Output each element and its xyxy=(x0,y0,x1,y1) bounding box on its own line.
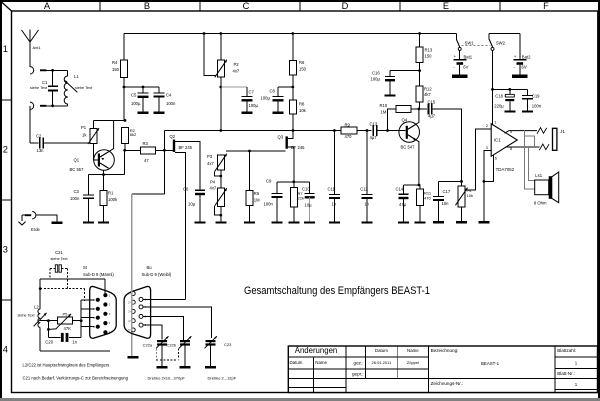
svg-text:1: 1 xyxy=(3,44,8,54)
svg-text:R13: R13 xyxy=(425,48,433,53)
label C12 xyxy=(360,186,369,206)
pin 8 label xyxy=(510,147,512,151)
node R5 top xyxy=(248,150,251,153)
wire source node xyxy=(277,181,310,183)
label R8 xyxy=(299,102,307,114)
svg-text:4: 4 xyxy=(3,344,8,354)
svg-text:Ant1: Ant1 xyxy=(33,45,41,50)
op-amp IC1 xyxy=(491,124,517,157)
ground under C12 xyxy=(362,221,373,223)
wire supply to C18 C19 xyxy=(493,88,528,91)
svg-text:C9: C9 xyxy=(266,179,272,184)
svg-text:C13: C13 xyxy=(370,121,378,126)
column separators xyxy=(100,0,500,11)
label Bat2 xyxy=(514,54,532,71)
svg-text:8 Ohm: 8 Ohm xyxy=(534,201,547,206)
capacitor C4 xyxy=(154,87,165,112)
node R4 bottom xyxy=(123,86,126,89)
wire jack to speaker upper xyxy=(525,130,535,189)
svg-text:10k: 10k xyxy=(299,108,307,113)
ground under C10 xyxy=(304,221,315,223)
wire Q2 drain xyxy=(175,141,200,190)
pin 5 label xyxy=(510,130,512,134)
svg-text:SW1: SW1 xyxy=(465,40,475,45)
svg-text:Zeichnungs-Nr.:: Zeichnungs-Nr.: xyxy=(431,381,463,386)
ground under C23 xyxy=(205,366,216,368)
label C3 xyxy=(70,189,80,201)
wire gate node down xyxy=(163,150,165,194)
wire P3 wiper to gate line xyxy=(215,171,223,177)
svg-text:470: 470 xyxy=(345,134,353,139)
wire R10 feedback xyxy=(388,109,396,131)
junction dots base node xyxy=(124,119,127,122)
resistor R6 xyxy=(289,34,296,101)
node volume top xyxy=(460,180,463,183)
node P5 wiper xyxy=(47,319,50,322)
svg-text:C19: C19 xyxy=(532,93,540,98)
ground under C16 xyxy=(385,94,396,96)
inductor L1 xyxy=(64,70,77,106)
label IC1 xyxy=(494,138,515,173)
svg-text:22k: 22k xyxy=(298,196,304,201)
note C21 xyxy=(23,376,129,381)
wire emitter node xyxy=(404,184,419,186)
capacitor C11 xyxy=(329,131,340,222)
svg-text:C6: C6 xyxy=(183,187,189,192)
power rail wire segment 2 xyxy=(489,33,520,35)
svg-text:26.01.2011: 26.01.2011 xyxy=(372,360,392,365)
svg-text:3: 3 xyxy=(486,146,488,150)
gray bus through Bu xyxy=(131,282,133,331)
svg-text:150: 150 xyxy=(112,67,120,72)
wire wiper to IC1 xyxy=(468,129,492,190)
svg-text:R8: R8 xyxy=(299,102,305,107)
node R13 bottom xyxy=(418,69,421,72)
svg-text:R5: R5 xyxy=(254,191,260,196)
capacitor C5 xyxy=(138,87,149,112)
svg-text:100µ: 100µ xyxy=(371,76,381,81)
ground under C18 xyxy=(504,110,515,112)
ganged dashed link xyxy=(156,349,178,360)
wire P4 bottom xyxy=(219,207,222,222)
svg-text:Name: Name xyxy=(407,348,419,353)
wire Q1 emitter up xyxy=(109,120,114,151)
ground under R7 xyxy=(289,221,300,223)
jack contact lower xyxy=(539,144,549,150)
svg-text:Sub-D 9 (Männl): Sub-D 9 (Männl) xyxy=(83,272,114,277)
gate line Q3 xyxy=(226,150,286,152)
svg-text:R12: R12 xyxy=(424,87,432,92)
wire P3 to P4 xyxy=(220,170,222,188)
ground under pin3 xyxy=(478,221,489,223)
svg-text:J1: J1 xyxy=(560,129,565,134)
row numbers 1-4 xyxy=(3,44,8,355)
ground under C6 xyxy=(195,221,206,223)
potentiometer P5 47K xyxy=(56,314,72,329)
label R10 xyxy=(380,103,388,115)
svg-text:Q4: Q4 xyxy=(402,117,408,122)
svg-text:1: 1 xyxy=(494,121,496,125)
svg-text:100µ: 100µ xyxy=(261,96,271,101)
svg-text:Q3: Q3 xyxy=(278,135,284,140)
label R6 xyxy=(299,60,307,72)
svg-text:+: + xyxy=(514,54,517,59)
svg-text:L1: L1 xyxy=(74,74,79,79)
svg-text:C3: C3 xyxy=(74,189,80,194)
label J1 xyxy=(560,129,565,134)
Bu pin numbers xyxy=(128,294,147,332)
wire gate node up xyxy=(163,131,165,151)
wire R10 to node xyxy=(411,108,419,110)
svg-text:Erde: Erde xyxy=(31,227,41,232)
label SW2 xyxy=(496,40,506,45)
label R7 xyxy=(298,191,304,201)
label L1 xyxy=(74,74,93,90)
svg-text:Blatt-Nr.:: Blatt-Nr.: xyxy=(557,371,575,376)
node P2 bottom xyxy=(219,86,222,89)
node antenna top xyxy=(51,69,54,72)
wire antenna to node xyxy=(46,69,67,71)
svg-text:10k: 10k xyxy=(467,193,473,198)
svg-text:R6: R6 xyxy=(299,60,305,65)
svg-text:8k2: 8k2 xyxy=(130,132,137,137)
capacitor C14 xyxy=(399,185,409,221)
svg-text:siehe Text: siehe Text xyxy=(75,86,93,90)
label C22b xyxy=(167,342,177,347)
St pin numbers xyxy=(93,295,111,334)
pin 6 label xyxy=(495,157,497,161)
resistor R9 xyxy=(341,127,357,134)
svg-text:220µ: 220µ xyxy=(494,103,504,108)
svg-text:F: F xyxy=(543,1,549,11)
capacitor C18 xyxy=(505,89,514,110)
svg-text:100n: 100n xyxy=(532,103,542,108)
svg-text:1M: 1M xyxy=(381,110,387,115)
ground under C8 xyxy=(273,112,284,114)
label C22a xyxy=(143,342,153,347)
ground under C11 xyxy=(329,221,340,223)
note Drehko 2 xyxy=(208,376,237,381)
svg-text:BF 245: BF 245 xyxy=(179,145,193,150)
svg-text:1n: 1n xyxy=(364,201,369,206)
variable capacitor C22a xyxy=(156,336,168,366)
label R13 xyxy=(425,48,433,59)
wire plug to C2 xyxy=(29,106,31,143)
ground under C19 xyxy=(522,110,533,112)
title block grid xyxy=(288,345,597,392)
svg-text:2: 2 xyxy=(486,124,488,128)
switch SW1 xyxy=(456,34,461,51)
wire Q2 source to bus xyxy=(175,152,185,299)
svg-text:L2: L2 xyxy=(34,305,39,310)
transistor Q4 BC 547 xyxy=(399,122,420,143)
label C1 xyxy=(30,80,48,90)
note Drehko 1 xyxy=(148,376,186,381)
svg-text:C8: C8 xyxy=(270,89,276,94)
svg-text:C2: C2 xyxy=(36,134,42,139)
switch SW2 xyxy=(489,34,494,51)
wire Bu pin to Q2 source xyxy=(143,298,185,300)
wire SW1 to Bat1 xyxy=(459,50,461,59)
svg-text:IC1: IC1 xyxy=(494,138,502,143)
schematic title text xyxy=(244,285,430,297)
svg-text:150: 150 xyxy=(425,54,433,59)
title block texts xyxy=(290,346,578,387)
capacitor C20 xyxy=(48,333,81,342)
wire to C7 xyxy=(221,87,247,97)
chassis ground arrow xyxy=(17,222,27,225)
power rail wire xyxy=(124,33,457,35)
svg-text:R1: R1 xyxy=(108,190,114,195)
label C4 xyxy=(166,93,176,107)
svg-text:B: B xyxy=(144,1,150,11)
svg-text:R3: R3 xyxy=(143,141,149,146)
svg-text:47µ: 47µ xyxy=(399,202,407,207)
svg-text:siehe Text: siehe Text xyxy=(30,86,48,90)
svg-text:BC 547: BC 547 xyxy=(401,144,416,149)
wire gate to Q2 xyxy=(164,149,172,151)
node Q4 emitter xyxy=(418,184,421,187)
resistor R1 xyxy=(100,175,107,222)
ground under R1 xyxy=(98,221,109,223)
wire tank left vertical xyxy=(39,279,41,309)
wire Q4 collector xyxy=(416,109,419,124)
svg-text:BEAST-1: BEAST-1 xyxy=(481,361,500,366)
inductor L2 xyxy=(34,309,47,327)
pin 2 label xyxy=(486,124,488,128)
ground under Bat1 xyxy=(452,75,468,78)
wire C13 to Q4 base xyxy=(377,130,406,132)
node R6 bottom xyxy=(291,86,294,89)
antenna plug connector lower xyxy=(30,102,46,109)
svg-text:6V: 6V xyxy=(463,64,468,69)
earth connector Erde xyxy=(22,212,36,222)
svg-text:Bu: Bu xyxy=(147,265,153,270)
svg-text:siehe Text: siehe Text xyxy=(17,314,35,318)
rail junction dots xyxy=(203,32,421,35)
capacitor C8 xyxy=(273,97,284,112)
capacitor C12 xyxy=(362,129,373,221)
svg-text:C14: C14 xyxy=(396,186,404,191)
wire to C5 C4 xyxy=(124,86,159,89)
node supply xyxy=(491,88,494,91)
transistor Q3 BF 245 xyxy=(286,136,288,148)
svg-text:C: C xyxy=(243,1,250,11)
wire to C8 xyxy=(278,87,293,97)
svg-text:C5: C5 xyxy=(131,93,137,98)
wire node to R2 top xyxy=(94,119,126,121)
battery Bat2 xyxy=(514,60,527,75)
ground under Bat2 xyxy=(512,75,528,78)
resistor R5 xyxy=(246,151,253,221)
label C11 xyxy=(328,186,337,206)
svg-text:Blattzahl:: Blattzahl: xyxy=(557,348,576,353)
label R3 xyxy=(143,141,150,163)
svg-text:4x7: 4x7 xyxy=(207,161,214,166)
wire Bu pin to C22a xyxy=(143,325,162,340)
label P5 xyxy=(63,312,72,331)
resistor R3 xyxy=(141,147,156,154)
label R11 xyxy=(424,190,432,200)
svg-text:gez.:: gez.: xyxy=(354,361,364,366)
capacitor C9 xyxy=(272,182,283,222)
label C14 xyxy=(396,186,407,207)
svg-text:R9: R9 xyxy=(345,122,351,127)
wire Q1 collector down xyxy=(89,149,127,175)
battery Bat1 xyxy=(454,60,467,75)
dashed lead C21 right xyxy=(61,269,67,289)
capacitor C21 xyxy=(55,265,61,272)
resistor R7 xyxy=(291,188,298,222)
ground under R11 xyxy=(415,221,426,223)
resistor R8 xyxy=(289,100,296,131)
svg-text:100k: 100k xyxy=(108,197,118,202)
wire P5 wiper down xyxy=(47,321,57,338)
svg-text:Bezeichnung:: Bezeichnung: xyxy=(431,348,459,353)
svg-text:C21 nach Bedarf, Verkürzungs-C: C21 nach Bedarf, Verkürzungs-C zur Berei… xyxy=(23,376,129,381)
svg-text:10µ: 10µ xyxy=(305,202,313,207)
label P4 xyxy=(467,188,473,198)
svg-text:1n: 1n xyxy=(72,340,77,345)
svg-text:C21: C21 xyxy=(55,250,63,255)
label C19 xyxy=(532,93,542,108)
svg-text:C23: C23 xyxy=(224,342,232,347)
wire tank top xyxy=(40,278,105,280)
svg-text:Name: Name xyxy=(315,360,327,365)
svg-text:siehe Text: siehe Text xyxy=(50,257,68,261)
capacitor C6 xyxy=(195,190,205,221)
svg-text:C16: C16 xyxy=(372,70,380,75)
label Bat1 xyxy=(453,54,472,71)
label R9 xyxy=(345,122,353,139)
wire P1 top xyxy=(93,120,95,128)
svg-text:C7: C7 xyxy=(249,90,255,95)
wire P5 right xyxy=(72,319,82,322)
svg-text:Q2: Q2 xyxy=(170,134,176,139)
label C6 xyxy=(183,187,196,207)
capacitor C10 xyxy=(305,182,315,222)
wire R3 to gate node xyxy=(156,149,165,151)
node Q2 gate xyxy=(163,149,166,152)
wire rail to P2 arrow xyxy=(204,34,216,76)
transistor Q2 BF 245 xyxy=(173,140,175,153)
capacitor C7 xyxy=(242,97,253,112)
svg-text:Bat2: Bat2 xyxy=(522,54,531,59)
svg-text:C12: C12 xyxy=(360,186,368,191)
svg-text:E: E xyxy=(443,1,449,11)
capacitor C13 xyxy=(370,121,378,140)
wire St stub bus xyxy=(80,300,82,338)
label Ls1 xyxy=(534,173,547,205)
svg-text:100n: 100n xyxy=(70,196,80,201)
pin 3 label xyxy=(486,146,488,150)
wire output pin8 xyxy=(506,146,540,148)
wire Erde to ground xyxy=(36,215,57,221)
speaker Ls1 xyxy=(535,172,559,203)
svg-text:P1: P1 xyxy=(81,125,87,130)
svg-text:Ls1: Ls1 xyxy=(535,173,542,178)
label Erde xyxy=(31,227,41,232)
switch link dashed xyxy=(462,45,491,47)
jack J1 body xyxy=(553,128,557,150)
svg-text:Datum: Datum xyxy=(375,348,388,353)
svg-text:10n: 10n xyxy=(442,201,450,206)
svg-text:470: 470 xyxy=(424,195,431,200)
svg-text:gepr.:: gepr.: xyxy=(352,372,364,377)
node Q1 collector xyxy=(102,173,105,176)
svg-text:C10: C10 xyxy=(302,186,310,191)
ground under C7 xyxy=(242,112,253,114)
node Q3 source xyxy=(292,180,295,183)
label C9 xyxy=(264,179,274,207)
trimmer P4 preset xyxy=(215,188,227,215)
svg-text:3: 3 xyxy=(3,244,8,254)
svg-text:C22b: C22b xyxy=(167,342,177,347)
svg-text:2: 2 xyxy=(3,144,8,154)
svg-text:P5: P5 xyxy=(63,312,69,317)
signal wire xyxy=(164,130,341,132)
stub to St pin 2 xyxy=(81,308,94,310)
svg-text:R10: R10 xyxy=(380,103,388,108)
svg-text:P3: P3 xyxy=(207,154,213,159)
wire to C16 xyxy=(390,71,420,77)
dashed gang line xyxy=(40,289,84,301)
node tank xyxy=(39,287,42,290)
node R10 tap xyxy=(386,129,389,132)
svg-text:100µ: 100µ xyxy=(131,101,141,106)
trimmer P2 xyxy=(215,34,227,131)
svg-text:R4: R4 xyxy=(112,60,118,65)
svg-text:C18: C18 xyxy=(495,93,503,98)
pin 1 label xyxy=(494,121,496,125)
svg-text:C11: C11 xyxy=(328,186,336,191)
note L2 C22 xyxy=(23,362,110,367)
svg-text:Änderungen: Änderungen xyxy=(295,346,338,355)
svg-text:Gesamtschaltung des Empfängers: Gesamtschaltung des Empfängers BEAST-1 xyxy=(244,285,430,297)
svg-text:150: 150 xyxy=(299,67,307,72)
svg-text:Drehko 2...12pF: Drehko 2...12pF xyxy=(208,376,237,381)
ground under C5 xyxy=(138,112,149,114)
svg-text:TDA7052: TDA7052 xyxy=(496,167,515,172)
stub to St pin 1 xyxy=(81,299,94,301)
label C10 xyxy=(302,186,312,207)
label R4 xyxy=(112,60,120,72)
variable capacitor C22b xyxy=(179,336,191,366)
wire jack to speaker lower xyxy=(529,147,535,181)
label Q2 xyxy=(170,134,193,150)
connector St Sub-D 9 male xyxy=(90,286,117,338)
corner diagonal xyxy=(1,2,12,12)
svg-text:100n: 100n xyxy=(166,101,176,106)
ground under C9 xyxy=(272,221,283,223)
label C18 xyxy=(494,93,504,108)
svg-text:1M: 1M xyxy=(254,198,260,203)
potentiometer P4 10k xyxy=(455,186,467,221)
svg-text:47K: 47K xyxy=(64,326,72,331)
wire Bu pin to C23 xyxy=(143,307,211,338)
row separators xyxy=(0,100,12,300)
svg-text:Datum: Datum xyxy=(290,360,303,365)
wire to SubD gray xyxy=(132,194,165,356)
svg-text:C17: C17 xyxy=(443,189,451,194)
svg-text:+: + xyxy=(454,54,457,59)
label L2 xyxy=(17,305,39,318)
svg-text:Q1: Q1 xyxy=(74,158,80,163)
label R1 xyxy=(108,190,118,202)
capacitor C3 xyxy=(83,175,94,222)
svg-text:100µ: 100µ xyxy=(249,103,259,108)
trimmer P3 xyxy=(215,154,227,172)
